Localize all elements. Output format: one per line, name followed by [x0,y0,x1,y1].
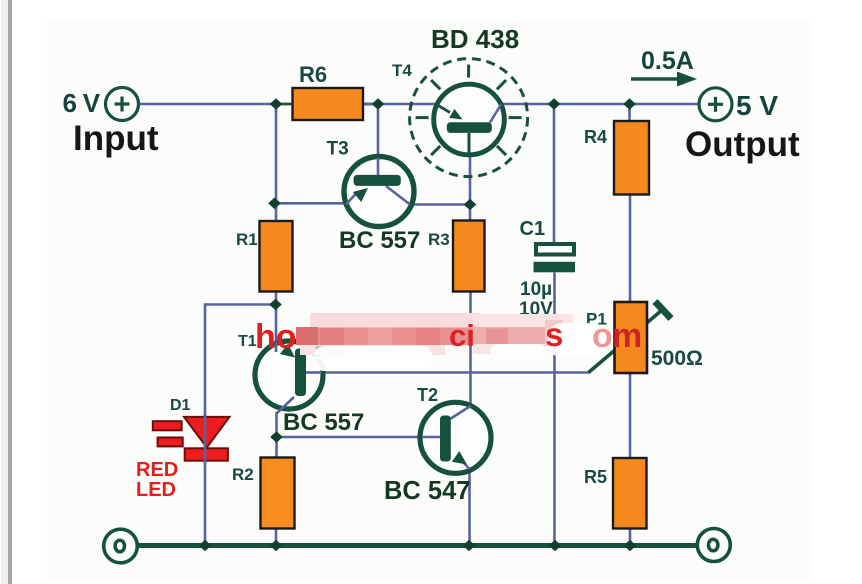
wire node A through R6 to node T3-base [277,103,378,106]
svg-text:BD 438: BD 438 [431,24,519,54]
ground terminal left [104,529,138,563]
svg-text:T1: T1 [238,333,257,350]
wire node C down to T1 emitter [275,305,278,346]
svg-text:R3: R3 [428,230,450,249]
svg-text:D1: D1 [170,397,191,414]
svg-text:BC 557: BC 557 [339,227,420,254]
resistor R1 [260,221,293,292]
wire T3 base drop [377,104,380,176]
wire node C1-tap down to C1 top plate [553,104,556,243]
transistor T1 [255,341,323,414]
node C1 tap [548,98,561,110]
LED D1 [153,417,230,461]
wire node C to LED branch down to ground [205,305,276,546]
svg-text:Output: Output [685,125,800,164]
wire R6 to T4 emitter [363,103,436,106]
watermark [255,313,642,371]
svg-text:10µ: 10µ [520,279,552,300]
wire P1 bottom to R5 top [629,373,632,458]
wire C1 bottom plate to ground rail [553,273,556,546]
ground rail [137,543,698,548]
svg-text:BC 547: BC 547 [384,477,470,505]
resistor R5 [613,458,647,529]
wire node A down to node E [275,104,278,221]
svg-text:5 V: 5 V [736,90,778,121]
resistor R6 [293,88,364,120]
svg-text:Input: Input [73,119,159,158]
wire T1 collector down to node D [275,412,278,458]
wire node R4-tap to R4 top [628,104,631,121]
wire R2 bottom to ground rail [275,528,278,546]
svg-text:ci: ci [449,318,475,353]
capacitor C1 [534,244,576,272]
node D: T1 collector / R2 / T2 base [270,431,283,443]
transistor T4 [410,59,528,177]
wire through LED D1 [204,413,207,465]
wire T4 base down through node B to R3 [469,133,472,221]
wire R4 bottom to P1 top [629,195,632,303]
svg-text:s: s [545,316,563,353]
svg-text:R5: R5 [584,467,607,487]
wire node D to T2 base [277,436,442,439]
wire R1 bottom to node C [275,292,278,306]
svg-text:C1: C1 [520,218,546,240]
resistor R4 [614,121,649,195]
svg-text:500Ω: 500Ω [651,347,703,370]
svg-text:R1: R1 [236,230,258,249]
wire input terminal to node A [139,103,277,106]
node R4 tap [623,98,636,110]
transistor T3 [344,157,414,227]
ground terminal right [697,529,730,562]
svg-text:o: o [592,317,613,355]
svg-text:ho: ho [255,318,297,356]
output plus terminal [699,88,732,121]
node A [270,98,283,110]
svg-text:0.5A: 0.5A [641,47,694,75]
current arrow 0.5A [631,72,697,87]
svg-text:BC 557: BC 557 [283,409,364,436]
wire T2 emitter down to ground rail [468,468,471,546]
wire R5 bottom to ground rail [629,529,632,546]
svg-text:R6: R6 [299,62,327,87]
node E: R1 top / T3 emitter [268,198,281,210]
node ground-LED junction [199,540,212,552]
node ground-R5 junction [624,540,637,552]
node C: R1 bottom / LED branch / T1 emitter [269,299,282,311]
svg-text:RED: RED [136,459,178,481]
svg-text:R4: R4 [584,127,607,147]
svg-text:LED: LED [136,479,176,501]
wire T4 collector to output terminal [503,103,699,106]
resistor R2 [261,458,295,529]
node T3 base tap [372,98,385,110]
node B: T4 base / T3 collector / R3 [464,199,477,211]
potentiometer P1 [589,302,672,374]
input plus terminal [106,88,139,121]
resistor R3 [453,221,485,292]
node ground-T2 junction [463,540,476,552]
wire T3 collector to node B [401,203,470,206]
svg-text:T4: T4 [392,61,412,80]
svg-text:T3: T3 [327,139,349,160]
wire T1 base to P1 wiper [306,371,589,374]
wire node E to T3 emitter [274,202,347,205]
node ground-R2 junction [270,540,283,552]
svg-text:T2: T2 [417,385,438,405]
node ground-C1 junction [549,540,562,552]
svg-text:m: m [612,317,642,355]
transistor T2 [420,402,491,473]
wire R3 bottom down to T2 collector [469,292,472,407]
svg-text:6 V: 6 V [63,88,101,118]
svg-text:R2: R2 [232,465,254,484]
